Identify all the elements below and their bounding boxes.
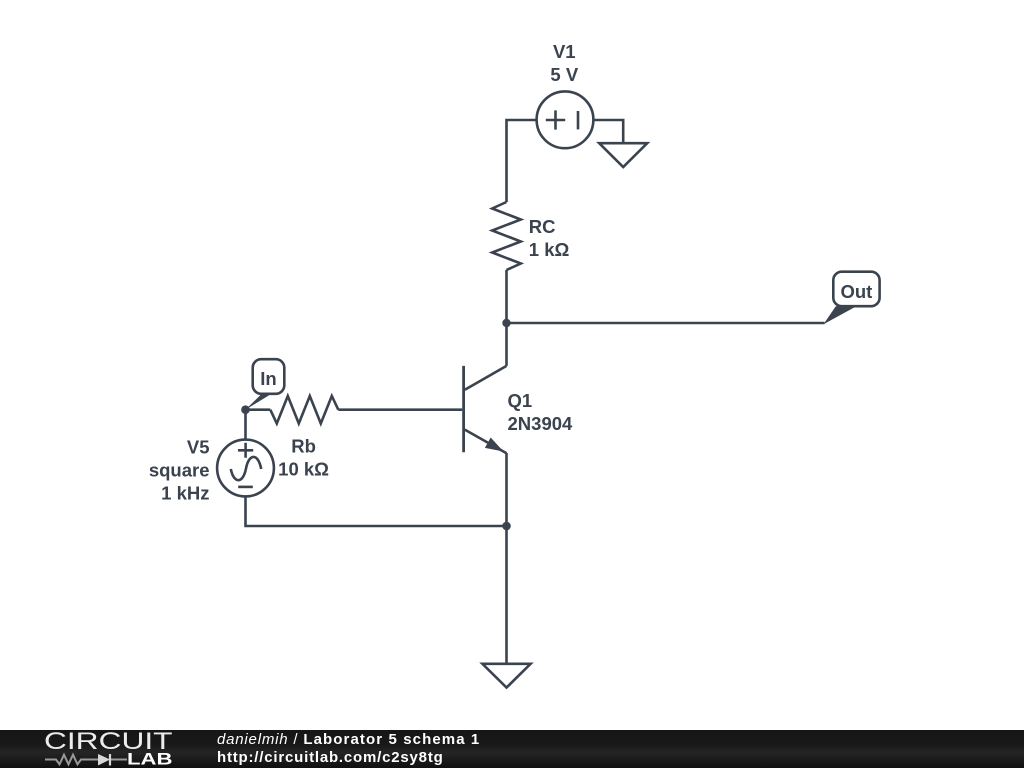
svg-text:Rb: Rb bbox=[291, 435, 316, 456]
wire In node to V5 top bbox=[244, 410, 247, 440]
svg-text:V1: V1 bbox=[553, 41, 576, 62]
Q1 emitter arrow bbox=[485, 438, 504, 452]
bottom black bar bbox=[0, 730, 1024, 768]
Out flag box bbox=[833, 272, 879, 307]
wire RC bottom to collector bbox=[505, 270, 508, 366]
wire V1 right terminal to ground bbox=[593, 120, 623, 143]
resistor Rb bbox=[270, 396, 338, 424]
svg-text:1 kΩ: 1 kΩ bbox=[529, 239, 570, 260]
svg-text:square: square bbox=[149, 460, 210, 481]
V5 plus sign bbox=[238, 443, 253, 458]
resistor RC bbox=[492, 202, 521, 270]
CircuitLab logo bbox=[0, 728, 200, 768]
wire In node to Rb bbox=[246, 408, 271, 411]
V5 minus sign bbox=[238, 486, 253, 489]
svg-text:10 kΩ: 10 kΩ bbox=[278, 459, 329, 480]
ground (V1) bbox=[599, 143, 647, 167]
wire emitter down to ground bbox=[505, 453, 508, 664]
node at In bbox=[241, 405, 250, 414]
V1 plus sign bbox=[546, 110, 565, 129]
svg-text:In: In bbox=[260, 368, 276, 389]
wire V1 left terminal to RC top bbox=[507, 120, 537, 202]
credit text bbox=[217, 731, 480, 768]
wire V5 bottom to rail bbox=[246, 496, 507, 526]
svg-text:Out: Out bbox=[840, 281, 872, 302]
wire node to Out flag bbox=[507, 322, 825, 325]
V5 sine glyph bbox=[231, 457, 261, 480]
svg-text:2N3904: 2N3904 bbox=[508, 413, 574, 434]
transistor Q1 base bar bbox=[462, 366, 465, 452]
ground (bottom) bbox=[482, 664, 530, 688]
In flag tail bbox=[246, 393, 272, 409]
Q1 emitter diagonal bbox=[465, 430, 507, 454]
In flag box bbox=[253, 359, 285, 394]
svg-text:5 V: 5 V bbox=[550, 64, 578, 85]
svg-text:1 kHz: 1 kHz bbox=[161, 483, 209, 504]
svg-text:Q1: Q1 bbox=[508, 390, 533, 411]
Q1 collector diagonal bbox=[465, 366, 507, 390]
voltage source V1 circle bbox=[537, 91, 594, 148]
node at emitter rail bbox=[502, 522, 511, 531]
svg-text:LAB: LAB bbox=[127, 750, 173, 768]
V1 minus bar bbox=[577, 111, 580, 129]
node at collector/out bbox=[502, 319, 510, 327]
voltage source V5 circle bbox=[217, 440, 274, 497]
Out flag tail bbox=[824, 306, 856, 324]
svg-text:V5: V5 bbox=[187, 436, 210, 457]
svg-text:RC: RC bbox=[529, 216, 556, 237]
wire Rb to Q1 base bbox=[338, 408, 462, 411]
